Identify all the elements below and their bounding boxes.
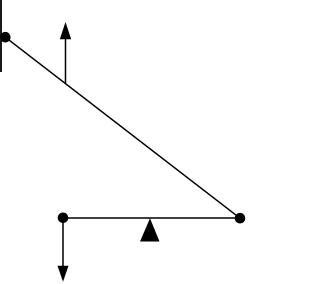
node B: [58, 213, 69, 224]
node C: [235, 213, 246, 224]
inclined member wire: [5, 37, 240, 218]
horizontal member wire: [63, 217, 240, 219]
pin node A: [0, 32, 11, 43]
roller support triangle: [140, 218, 160, 241]
wall line: [0, 0, 2, 72]
downward force arrow: [58, 218, 69, 282]
upward force arrow: [60, 22, 71, 84]
